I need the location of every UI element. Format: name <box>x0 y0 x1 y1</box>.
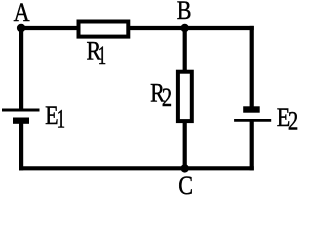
svg-text:A: A <box>14 0 30 27</box>
svg-text:C: C <box>178 173 193 199</box>
svg-text:1: 1 <box>98 40 106 70</box>
svg-text:2: 2 <box>288 107 298 136</box>
svg-text:2: 2 <box>162 84 172 113</box>
svg-text:B: B <box>177 0 192 26</box>
svg-text:1: 1 <box>57 104 65 134</box>
